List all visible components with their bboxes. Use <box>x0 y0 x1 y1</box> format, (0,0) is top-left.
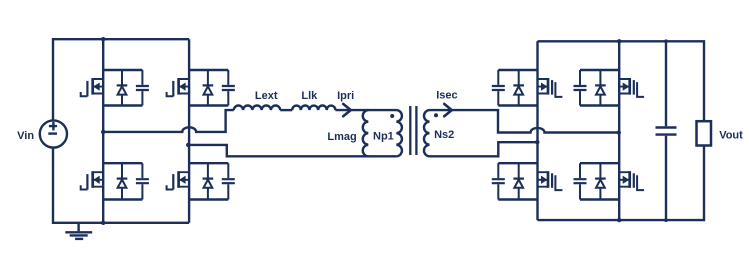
load resistor (Vout) <box>697 121 712 145</box>
body diode D4 <box>203 163 214 199</box>
wire: left bridge leg 1 <box>102 39 104 223</box>
capacitor C2 (output cap of switch) <box>222 70 235 106</box>
wire: secondary bottom (Ns2 to leg3 mid) <box>430 142 538 156</box>
svg-text:Np1: Np1 <box>373 130 394 142</box>
capacitor Cout (output filter cap) <box>656 41 677 220</box>
capacitor C4 (output cap of switch) <box>222 163 235 199</box>
wire <box>103 163 142 199</box>
wire: Llk to transformer <box>335 109 396 111</box>
wire: phase A (leg1 mid to Lext), hops over leg2 <box>103 110 234 132</box>
body diode D3 <box>117 163 128 199</box>
junction: leg2 midpoint node <box>186 143 190 147</box>
capacitor C1 (output cap of switch) <box>136 70 149 106</box>
junction: leg4 / bottom rail <box>617 218 621 222</box>
body diode D7 <box>513 163 524 199</box>
transistor Q6 (MOSFET) <box>619 78 644 97</box>
wire <box>498 163 537 199</box>
svg-text:Vin: Vin <box>17 130 34 142</box>
capacitor C3 (output cap of switch) <box>136 163 149 199</box>
wire: secondary top (Ns2 to leg4 mid), hops over leg3 <box>430 110 619 132</box>
junction: output cap / top rail <box>664 39 668 43</box>
junction: leg1 / bottom rail <box>101 221 105 225</box>
transistor Q5 (MOSFET) <box>538 78 563 97</box>
ground <box>65 223 92 239</box>
junction: leg3 midpoint node <box>535 140 539 144</box>
wire <box>103 70 142 106</box>
body diode D5 <box>513 70 524 106</box>
wire: Lext to Llk <box>280 109 292 111</box>
wire: input negative rail <box>53 148 189 223</box>
wire: input positive rail <box>53 39 189 120</box>
inductor Lext <box>234 105 280 110</box>
inductor Lmag (magnetizing) <box>363 110 369 156</box>
svg-text:Lext: Lext <box>255 90 278 102</box>
body diode D2 <box>203 70 214 106</box>
capacitor C7 (output cap of switch) <box>492 163 505 199</box>
svg-text:Vout: Vout <box>719 130 743 142</box>
wire: right bridge leg 3 <box>536 41 538 220</box>
svg-text:Lmag: Lmag <box>327 131 356 143</box>
body diode D8 <box>595 163 606 199</box>
transformer primary winding Np1 <box>396 110 402 156</box>
inductor Llk <box>292 105 335 110</box>
transistor Q4 (MOSFET) <box>167 171 190 189</box>
transistor Q2 (MOSFET) <box>167 78 190 96</box>
junction: leg4 / top rail <box>617 39 621 43</box>
junction: leg4 midpoint node <box>617 130 621 134</box>
wire <box>189 163 228 199</box>
svg-text:Isec: Isec <box>436 90 457 102</box>
svg-text:Ipri: Ipri <box>337 90 354 102</box>
svg-text:Ns2: Ns2 <box>434 129 454 141</box>
transistor Q8 (MOSFET) <box>619 171 644 190</box>
wire <box>580 163 619 199</box>
capacitor C5 (output cap of switch) <box>492 70 505 106</box>
body diode D6 <box>595 70 606 106</box>
transformer core <box>410 106 416 155</box>
polarity dot: primary <box>390 114 394 118</box>
body diode D1 <box>117 70 128 106</box>
wire: phase B (leg2 mid to transformer bottom) <box>189 145 396 156</box>
capacitor C8 (output cap of switch) <box>574 163 587 199</box>
junction: leg1 midpoint node <box>101 130 105 134</box>
source Vin (DC source) <box>40 120 67 147</box>
transistor Q7 (MOSFET) <box>538 171 563 190</box>
wire: left bridge leg 2 <box>188 39 190 223</box>
junction: leg1 / top rail <box>101 37 105 41</box>
transistor Q1 (MOSFET) <box>81 78 104 96</box>
wire: output negative rail <box>538 146 705 221</box>
wire: right bridge leg 4 <box>618 41 620 220</box>
transistor Q3 (MOSFET) <box>81 171 104 189</box>
capacitor C6 (output cap of switch) <box>574 70 587 106</box>
wire <box>498 70 537 106</box>
current arrow Ipri <box>343 104 351 116</box>
wire <box>189 70 228 106</box>
transformer secondary winding Ns2 <box>424 110 430 156</box>
current arrow Isec <box>444 104 452 116</box>
junction: output cap / bottom rail <box>664 218 668 222</box>
svg-text:Llk: Llk <box>301 90 318 102</box>
polarity dot: secondary <box>434 113 438 117</box>
wire: output positive rail <box>538 41 705 121</box>
wire <box>580 70 619 106</box>
